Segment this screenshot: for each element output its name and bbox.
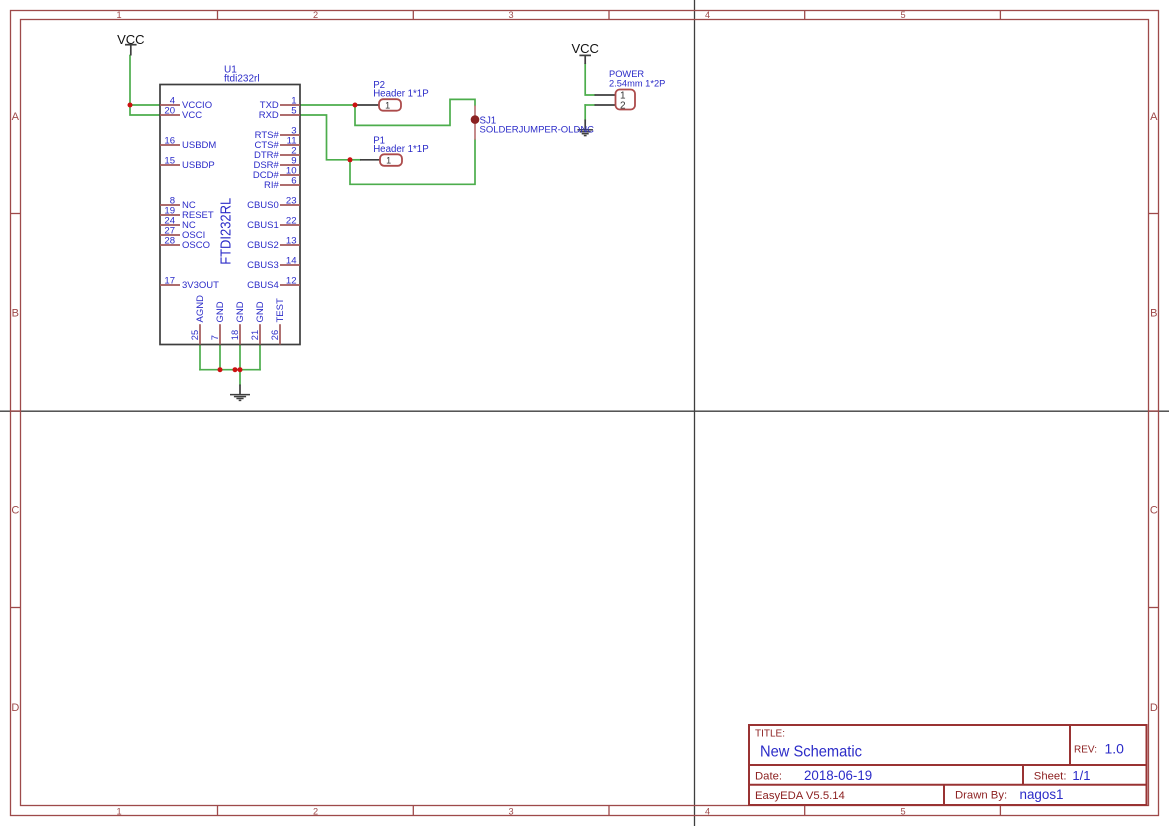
svg-text:1/1: 1/1 xyxy=(1072,768,1090,783)
svg-text:GND: GND xyxy=(235,301,246,322)
svg-text:2: 2 xyxy=(620,101,626,112)
svg-text:Header 1*1P: Header 1*1P xyxy=(373,144,428,155)
svg-text:CBUS4: CBUS4 xyxy=(247,280,279,291)
svg-text:2: 2 xyxy=(313,806,318,816)
svg-text:SOLDERJUMPER-OLDNC: SOLDERJUMPER-OLDNC xyxy=(480,125,595,136)
svg-text:15: 15 xyxy=(164,155,175,166)
svg-text:3: 3 xyxy=(508,10,513,20)
svg-text:22: 22 xyxy=(286,215,297,226)
svg-text:TITLE:: TITLE: xyxy=(755,729,785,740)
svg-text:20: 20 xyxy=(164,105,175,116)
svg-text:C: C xyxy=(11,505,19,517)
svg-text:AGND: AGND xyxy=(195,295,206,323)
svg-text:25: 25 xyxy=(190,330,200,340)
svg-text:GND: GND xyxy=(215,301,226,322)
svg-text:4: 4 xyxy=(705,806,710,816)
svg-text:VCC: VCC xyxy=(571,41,598,56)
svg-text:5: 5 xyxy=(291,105,296,116)
svg-text:5: 5 xyxy=(900,806,905,816)
svg-text:USBDM: USBDM xyxy=(182,140,216,151)
svg-text:B: B xyxy=(12,308,19,320)
svg-text:CBUS1: CBUS1 xyxy=(247,220,279,231)
svg-text:CBUS2: CBUS2 xyxy=(247,240,279,251)
svg-text:C: C xyxy=(1150,505,1158,517)
svg-text:17: 17 xyxy=(164,275,175,286)
svg-text:CBUS3: CBUS3 xyxy=(247,260,279,271)
svg-text:OSCO: OSCO xyxy=(182,240,210,251)
svg-text:3: 3 xyxy=(508,806,513,816)
svg-text:RXD: RXD xyxy=(259,110,279,121)
svg-text:2.54mm 1*2P: 2.54mm 1*2P xyxy=(609,79,665,89)
svg-text:CBUS0: CBUS0 xyxy=(247,200,279,211)
svg-text:7: 7 xyxy=(210,335,220,340)
svg-text:14: 14 xyxy=(286,255,297,266)
svg-text:23: 23 xyxy=(286,195,297,206)
svg-text:D: D xyxy=(11,702,19,714)
svg-text:Sheet:: Sheet: xyxy=(1034,771,1067,783)
svg-text:1: 1 xyxy=(386,156,391,166)
svg-text:6: 6 xyxy=(291,175,296,186)
svg-text:GND: GND xyxy=(255,301,266,322)
svg-text:1: 1 xyxy=(116,10,121,20)
svg-text:Header 1*1P: Header 1*1P xyxy=(373,89,428,100)
svg-text:REV:: REV: xyxy=(1074,745,1097,756)
svg-text:13: 13 xyxy=(286,235,297,246)
svg-text:26: 26 xyxy=(270,330,280,340)
svg-text:12: 12 xyxy=(286,275,297,286)
svg-text:A: A xyxy=(12,111,20,123)
svg-text:EasyEDA V5.5.14: EasyEDA V5.5.14 xyxy=(755,790,845,802)
svg-text:RI#: RI# xyxy=(264,180,280,191)
svg-text:ftdi232rl: ftdi232rl xyxy=(224,74,260,85)
svg-text:D: D xyxy=(1150,702,1158,714)
svg-text:1.0: 1.0 xyxy=(1105,740,1125,756)
svg-text:16: 16 xyxy=(164,135,175,146)
svg-text:New Schematic: New Schematic xyxy=(760,744,862,761)
svg-text:A: A xyxy=(1150,111,1158,123)
svg-text:Drawn By:: Drawn By: xyxy=(955,789,1007,801)
svg-text:3V3OUT: 3V3OUT xyxy=(182,280,219,291)
svg-text:VCC: VCC xyxy=(182,110,202,121)
svg-text:28: 28 xyxy=(164,235,175,246)
svg-text:USBDP: USBDP xyxy=(182,160,215,171)
svg-text:POWER: POWER xyxy=(609,69,644,79)
svg-text:5: 5 xyxy=(900,10,905,20)
svg-text:TEST: TEST xyxy=(275,298,286,322)
svg-text:FTDI232RL: FTDI232RL xyxy=(218,198,235,265)
svg-text:1: 1 xyxy=(385,101,390,111)
svg-text:1: 1 xyxy=(116,806,121,816)
svg-text:21: 21 xyxy=(250,330,260,340)
svg-text:nagos1: nagos1 xyxy=(1020,786,1064,802)
svg-text:2: 2 xyxy=(313,10,318,20)
svg-text:2018-06-19: 2018-06-19 xyxy=(804,767,872,783)
svg-text:4: 4 xyxy=(705,10,710,20)
svg-text:B: B xyxy=(1150,308,1157,320)
svg-text:Date:: Date: xyxy=(755,771,782,783)
svg-text:18: 18 xyxy=(230,330,240,340)
